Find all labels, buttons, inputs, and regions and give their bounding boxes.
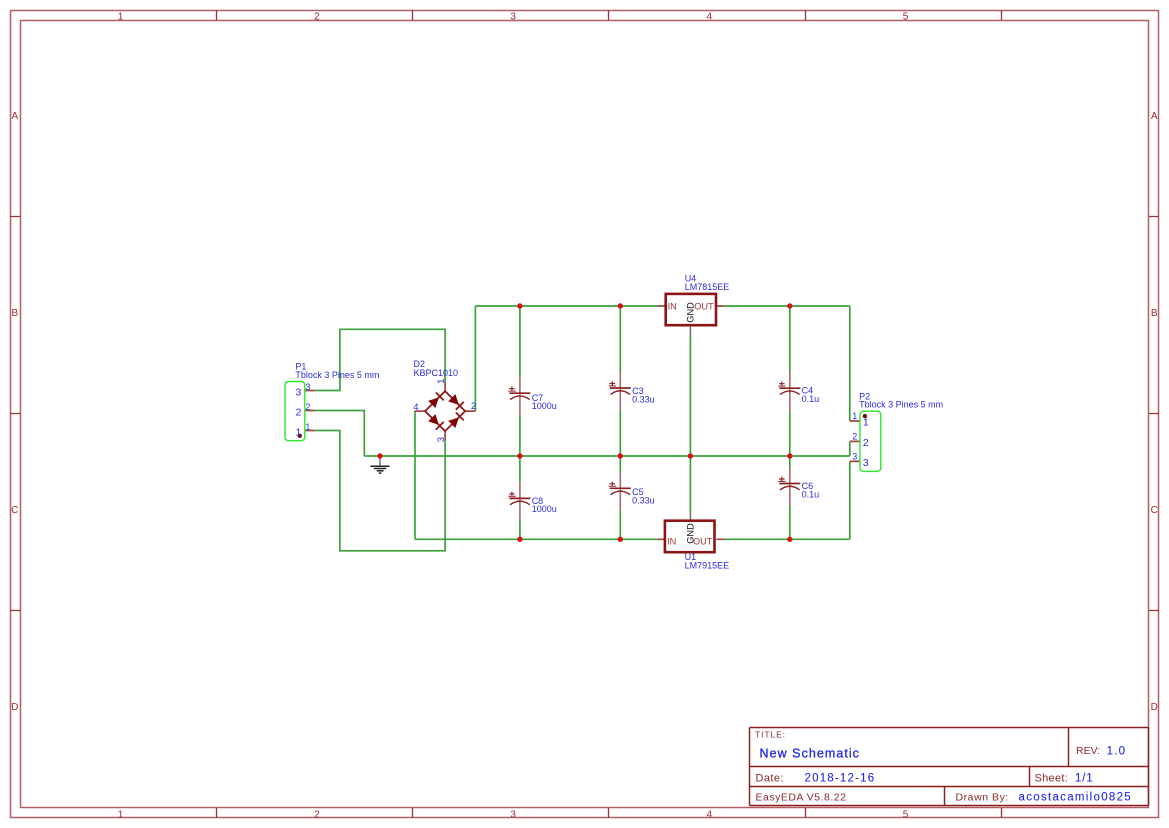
- svg-text:B: B: [1151, 308, 1158, 319]
- svg-text:0.1u: 0.1u: [802, 394, 820, 404]
- svg-text:IN: IN: [668, 301, 677, 311]
- svg-text:5: 5: [903, 809, 909, 820]
- svg-text:3: 3: [305, 382, 310, 392]
- svg-text:1000u: 1000u: [532, 401, 557, 411]
- svg-text:Tblock 3 Pines 5 mm: Tblock 3 Pines 5 mm: [859, 399, 943, 409]
- svg-text:LM7915EE: LM7915EE: [685, 560, 730, 570]
- svg-text:KBPC1010: KBPC1010: [414, 368, 459, 378]
- svg-text:0.33u: 0.33u: [632, 496, 655, 506]
- svg-text:1: 1: [295, 426, 301, 438]
- svg-text:New Schematic: New Schematic: [760, 746, 861, 760]
- svg-text:Date:: Date:: [756, 773, 784, 785]
- svg-text:OUT: OUT: [693, 537, 713, 547]
- svg-text:IN: IN: [667, 537, 676, 547]
- svg-text:1000u: 1000u: [532, 504, 557, 514]
- svg-text:2: 2: [295, 406, 301, 418]
- svg-text:1: 1: [118, 12, 124, 23]
- svg-text:acostacamilo0825: acostacamilo0825: [1019, 792, 1133, 804]
- svg-text:D: D: [1151, 702, 1158, 713]
- svg-text:1: 1: [863, 417, 869, 429]
- svg-text:Drawn By:: Drawn By:: [956, 792, 1009, 804]
- svg-text:EasyEDA V5.8.22: EasyEDA V5.8.22: [756, 792, 847, 804]
- svg-text:Sheet:: Sheet:: [1035, 773, 1069, 785]
- svg-text:B: B: [11, 308, 18, 319]
- svg-text:1: 1: [118, 809, 124, 820]
- svg-text:A: A: [1151, 111, 1158, 122]
- svg-text:REV:: REV:: [1076, 745, 1100, 757]
- svg-text:0.33u: 0.33u: [632, 394, 655, 404]
- svg-text:2: 2: [305, 402, 310, 412]
- svg-text:2: 2: [314, 809, 320, 820]
- svg-text:3: 3: [510, 809, 516, 820]
- svg-text:2018-12-16: 2018-12-16: [805, 773, 876, 785]
- svg-text:2: 2: [863, 437, 869, 449]
- svg-text:GND: GND: [685, 523, 695, 544]
- svg-text:3: 3: [436, 437, 447, 442]
- svg-text:1: 1: [436, 379, 447, 384]
- svg-text:3: 3: [863, 457, 869, 469]
- svg-text:0.1u: 0.1u: [802, 489, 820, 499]
- svg-text:OUT: OUT: [694, 301, 714, 311]
- svg-text:Tblock 3 Pines 5 mm: Tblock 3 Pines 5 mm: [295, 370, 379, 380]
- svg-text:2: 2: [314, 12, 320, 23]
- svg-text:C: C: [11, 505, 18, 516]
- svg-text:1.0: 1.0: [1107, 746, 1127, 758]
- svg-text:3: 3: [510, 12, 516, 23]
- svg-text:GND: GND: [686, 302, 696, 323]
- svg-text:LM7815EE: LM7815EE: [685, 282, 730, 292]
- svg-text:D: D: [11, 702, 18, 713]
- svg-text:4: 4: [707, 12, 713, 23]
- svg-text:2: 2: [852, 431, 857, 441]
- svg-text:2: 2: [471, 401, 476, 412]
- svg-text:3: 3: [852, 451, 857, 461]
- svg-text:A: A: [11, 111, 18, 122]
- svg-text:1: 1: [305, 422, 310, 432]
- svg-text:4: 4: [707, 809, 713, 820]
- svg-text:1/1: 1/1: [1075, 773, 1093, 785]
- svg-text:TITLE:: TITLE:: [755, 730, 786, 740]
- svg-text:4: 4: [413, 402, 418, 413]
- svg-text:C: C: [1151, 505, 1158, 516]
- svg-text:5: 5: [903, 12, 909, 23]
- svg-text:3: 3: [295, 386, 301, 398]
- svg-text:1: 1: [852, 411, 857, 421]
